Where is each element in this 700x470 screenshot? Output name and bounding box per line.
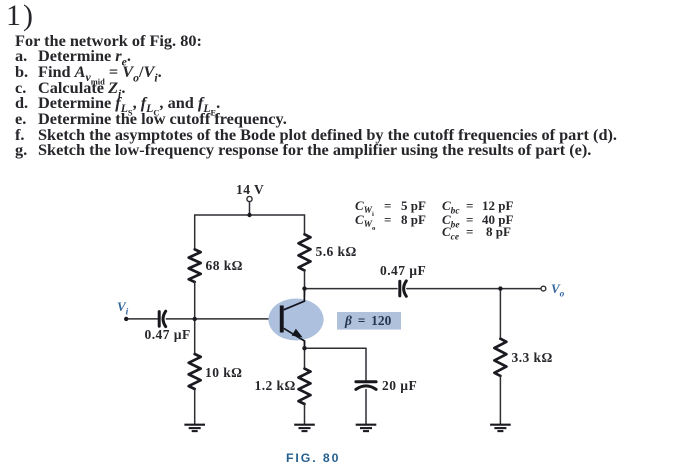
ground G1 [184, 425, 205, 431]
capacitor Cs 0.47uF input [159, 311, 166, 326]
label 20 uF [382, 378, 417, 394]
label 3.3 kOhm [512, 350, 553, 366]
wire supply to rail [249, 202, 251, 215]
resistor RE 1.2k [299, 369, 311, 404]
wiring capacitance table [355, 198, 374, 215]
ground G3 [356, 425, 377, 431]
wire output cap to Vo terminal [407, 288, 541, 290]
label 1.2 kOhm [255, 378, 296, 394]
node collector [302, 286, 306, 290]
wire emitter rail [305, 347, 367, 349]
node input Vi [124, 317, 128, 321]
transistor Q1 highlight ellipse [268, 299, 323, 341]
wire bypass branch upper [365, 348, 367, 381]
label 5.6 kOhm [316, 244, 357, 260]
wire left branch lower [194, 389, 196, 425]
label 0.47 uF input [145, 327, 191, 343]
wire top rail [195, 214, 305, 216]
wire left branch middle [194, 282, 196, 354]
transistor Q1 symbol [280, 289, 305, 349]
resistor RL 3.3k [494, 339, 506, 376]
label 10 kOhm [205, 365, 242, 381]
wire bypass branch lower [365, 390, 367, 425]
ground G4 [490, 425, 511, 431]
wire load branch upper [499, 289, 501, 339]
problem statement lines [15, 34, 202, 48]
resistor R1 68k [189, 249, 201, 282]
node supply junction [247, 213, 251, 217]
capacitor CE 20uF [356, 382, 376, 390]
wire collector branch [304, 270, 306, 295]
wire collector node to output cap [305, 288, 398, 290]
wire load branch lower [499, 376, 501, 425]
wire cap to base [166, 318, 280, 320]
label 68 kOhm [206, 258, 243, 274]
node emitter [302, 346, 306, 350]
wire right branch upper [304, 215, 306, 234]
capacitor Cc 0.47uF output [400, 281, 407, 296]
resistor RC 5.6k [299, 234, 311, 270]
resistor R2 10k [189, 354, 201, 389]
wire emitter branch lower [304, 404, 306, 425]
label Vi [117, 299, 128, 315]
terminal Vo [541, 286, 546, 291]
ground G2 [294, 425, 315, 431]
label Vo [551, 281, 564, 297]
label 14 V [236, 182, 264, 198]
wire input node to cap [126, 318, 157, 320]
wire left branch upper [194, 215, 196, 249]
node base junction [193, 317, 197, 321]
figure caption FIG. 80 [286, 451, 340, 465]
label beta=120 [345, 313, 391, 329]
transistor emitter arrow [293, 330, 302, 337]
supply terminal 14V [247, 196, 252, 201]
beta box [337, 312, 401, 330]
label 0.47 uF output [380, 263, 426, 279]
heading number [6, 0, 35, 33]
wire emitter branch [304, 341, 306, 369]
node output [498, 286, 502, 290]
